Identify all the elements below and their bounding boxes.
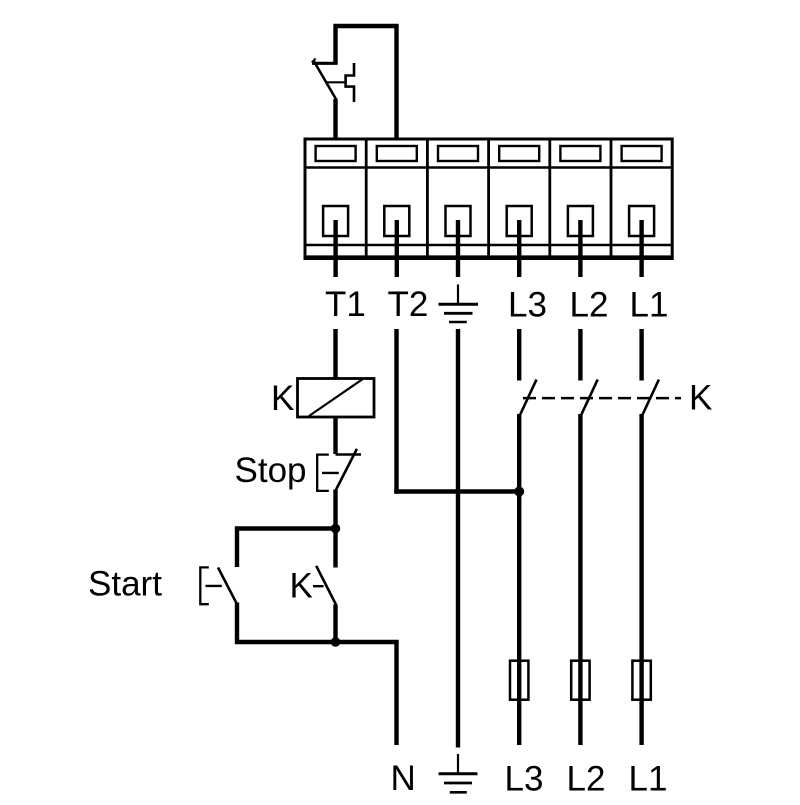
wire loop T1 to overload contact, top horizontal (333, 26, 398, 139)
svg-text:T2: T2 (388, 285, 429, 324)
Stop button plunger link (322, 472, 339, 474)
svg-text:L3: L3 (508, 286, 547, 325)
wire L1 lower (639, 414, 643, 745)
wire L3 upper stub (517, 329, 521, 381)
main contact K lever L3 (520, 380, 536, 415)
wire coil to Stop (333, 417, 337, 454)
wire T2 down (394, 329, 398, 494)
terminal block bottom border (305, 255, 672, 258)
terminal label windows (316, 146, 356, 161)
svg-text:K: K (689, 379, 712, 418)
thermal overload element (346, 63, 354, 102)
terminal block outer body (305, 139, 672, 259)
svg-text:L3: L3 (505, 760, 544, 799)
main contact K lever L2 (581, 380, 597, 415)
wire T2 to L3 junction (394, 489, 519, 493)
contactor linkage dashed line (523, 397, 681, 400)
ground symbol top, stem (457, 285, 459, 304)
svg-text:L2: L2 (567, 760, 606, 799)
contactor coil K1 box (298, 379, 375, 418)
svg-text:N: N (391, 759, 416, 798)
main contact K lever L1 (643, 380, 659, 415)
ground symbol bottom, stem (457, 754, 459, 773)
earth conductor wire (456, 329, 460, 748)
fuse F2 (571, 661, 589, 700)
wire L1 upper stub (639, 329, 643, 381)
junction node A (331, 524, 341, 534)
K aux link dash (313, 585, 324, 587)
svg-text:L1: L1 (630, 286, 669, 325)
fuse F3 (632, 661, 650, 700)
Stop button lever (336, 449, 357, 491)
Start button actuator bracket (200, 567, 209, 604)
wire T1 to coil (333, 329, 337, 379)
svg-text:T1: T1 (325, 285, 366, 324)
Start button lever (218, 568, 236, 603)
terminal block lower strip line (305, 244, 672, 247)
Stop button actuator bracket (317, 455, 329, 491)
terminal block upper divider line (305, 166, 672, 169)
wire L2 upper stub (578, 329, 582, 381)
svg-text:Stop: Stop (235, 451, 307, 490)
wire Start lower (237, 603, 336, 645)
terminal wires through block bottom (336, 220, 642, 277)
svg-text:Start: Start (88, 565, 162, 604)
wire junction B to N riser (336, 642, 399, 745)
terminal block cell dividers (366, 139, 611, 257)
terminal screw cages (323, 206, 348, 236)
svg-text:L1: L1 (629, 760, 668, 799)
Stop button fixed contact line (336, 453, 362, 455)
svg-text:K: K (290, 567, 313, 606)
ground symbol top, bars (439, 303, 479, 306)
Start button plunger link (206, 585, 222, 587)
overload trip contact lever (314, 61, 337, 100)
coil diagonal (309, 379, 363, 416)
junction node C on L3 (514, 487, 524, 497)
wire L3 lower (517, 414, 521, 745)
wire K aux upper (333, 529, 337, 568)
wire Stop to junction (333, 490, 337, 529)
branch wire to Start (237, 526, 336, 567)
svg-text:L2: L2 (570, 286, 609, 325)
wire L2 lower (578, 414, 582, 745)
ground symbol bottom, bars (439, 772, 478, 775)
wire K aux lower (333, 604, 337, 642)
overload trip contact tick (312, 58, 316, 62)
wire from overload contact to T1 terminal (333, 99, 337, 139)
overload trip contact (thermal NC) fixed line (312, 62, 338, 65)
fuse F1 (510, 661, 528, 700)
junction node B (331, 637, 341, 647)
K aux contact lever (316, 566, 336, 605)
overload trip linkage line (327, 81, 346, 83)
svg-text:K: K (271, 379, 294, 418)
